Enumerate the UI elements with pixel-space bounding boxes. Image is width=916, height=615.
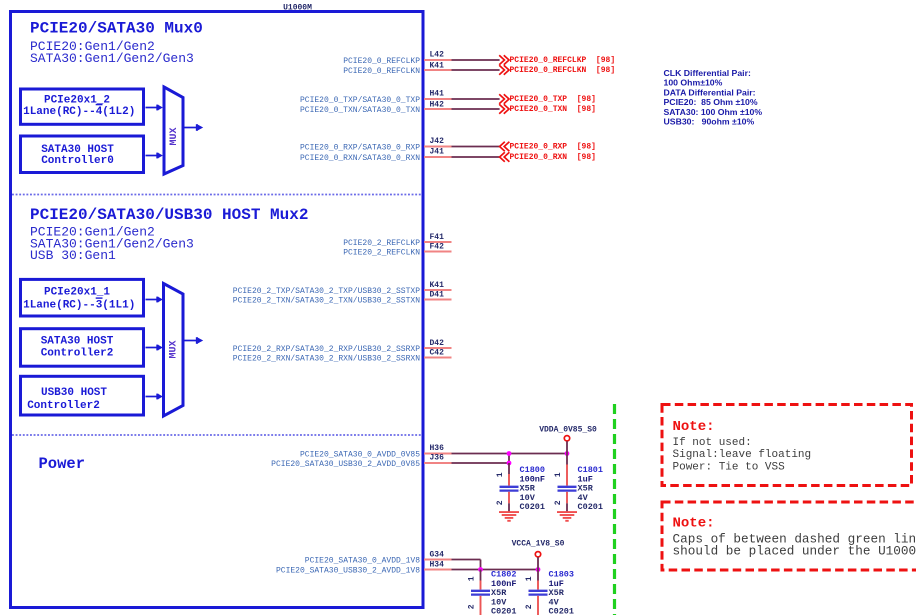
svg-text:PCIE20_2_RXP/SATA30_2_RXP/USB3: PCIE20_2_RXP/SATA30_2_RXP/USB30_2_SSRXP bbox=[233, 345, 420, 354]
svg-text:J41: J41 bbox=[430, 148, 445, 157]
svg-text:2: 2 bbox=[554, 500, 563, 505]
svg-text:PCIE20_SATA30_USB30_2_AVDD_0V8: PCIE20_SATA30_USB30_2_AVDD_0V85 bbox=[271, 460, 420, 469]
svg-text:PCIE20_2_REFCLKN: PCIE20_2_REFCLKN bbox=[343, 249, 420, 258]
pin K41 TXP2 bbox=[233, 281, 452, 296]
svg-text:PCIE20_0_REFCLKN [98]: PCIE20_0_REFCLKN [98] bbox=[510, 66, 616, 75]
svg-text:1: 1 bbox=[554, 472, 563, 477]
wire SATA30 ctrl0 to mux bbox=[146, 153, 163, 159]
svg-text:should be placed under the U10: should be placed under the U1000M bbox=[673, 544, 916, 559]
svg-text:PCIE20_0_REFCLKP: PCIE20_0_REFCLKP bbox=[343, 57, 420, 66]
svg-text:PCIE20_0_RXN/SATA30_0_RXN: PCIE20_0_RXN/SATA30_0_RXN bbox=[300, 154, 420, 163]
svg-text:100 Ohm±10%: 100 Ohm±10% bbox=[664, 78, 723, 88]
junction dot 2 bbox=[507, 461, 512, 466]
svg-text:C42: C42 bbox=[430, 349, 445, 358]
svg-text:If not used:: If not used: bbox=[673, 437, 752, 449]
svg-text:2: 2 bbox=[525, 604, 534, 609]
junction dot 5 bbox=[536, 567, 541, 572]
ground under C1800 bbox=[499, 512, 519, 521]
pin G34 AVDD_1V8 bbox=[305, 551, 452, 566]
net impedance annotation bbox=[664, 68, 763, 127]
svg-text:Controller0: Controller0 bbox=[41, 155, 114, 167]
svg-text:PCIE20_0_TXN/SATA30_0_TXN: PCIE20_0_TXN/SATA30_0_TXN bbox=[300, 106, 420, 115]
svg-text:1: 1 bbox=[468, 576, 477, 581]
wire net AVDD_0V85 horizontal J36 bbox=[452, 462, 510, 464]
section title Power bbox=[39, 455, 86, 473]
block PCIe20x1_2 bbox=[21, 89, 144, 124]
wire USB30 ctrl2 to mux2 bbox=[146, 394, 163, 400]
svg-text:USB30: 90ohm ±10%: USB30: 90ohm ±10% bbox=[664, 117, 755, 127]
wire net AVDD_1V8 H34 bbox=[452, 569, 539, 571]
power symbol VDDA_0V85_S0 bbox=[539, 426, 597, 454]
pin D41 TXN2 bbox=[233, 291, 452, 306]
pin F41 PCIE20_2_REFCLKP bbox=[343, 233, 451, 248]
capacitor C1801 bbox=[554, 454, 603, 513]
wire mux2 output bbox=[185, 337, 204, 344]
note box 1 bbox=[662, 405, 912, 486]
svg-text:U1000M: U1000M bbox=[283, 4, 312, 13]
section separator 2 bbox=[12, 434, 421, 436]
svg-text:VCCA_1V8_S0: VCCA_1V8_S0 bbox=[512, 540, 565, 549]
svg-text:Note:: Note: bbox=[673, 516, 715, 532]
svg-text:PCIE20_SATA30_0_AVDD_1V8: PCIE20_SATA30_0_AVDD_1V8 bbox=[305, 557, 420, 566]
svg-text:PCIE20_0_RXP/SATA30_0_RXP: PCIE20_0_RXP/SATA30_0_RXP bbox=[300, 144, 420, 153]
section separator 1 bbox=[12, 194, 421, 196]
svg-text:VDDA_0V85_S0: VDDA_0V85_S0 bbox=[539, 426, 597, 435]
svg-text:C0201: C0201 bbox=[520, 502, 546, 512]
svg-text:PCIE20_0_RXP [98]: PCIE20_0_RXP [98] bbox=[510, 143, 596, 152]
svg-text:USB30 HOST: USB30 HOST bbox=[41, 387, 107, 399]
svg-text:CLK Differential Pair:: CLK Differential Pair: bbox=[664, 68, 751, 78]
capacitor C1800 bbox=[496, 463, 545, 512]
svg-text:F41: F41 bbox=[430, 233, 445, 242]
capacitor C1803 bbox=[525, 570, 574, 615]
block SATA30 HOST Controller2 bbox=[21, 329, 144, 367]
svg-text:SATA30 HOST: SATA30 HOST bbox=[41, 336, 114, 348]
svg-text:L42: L42 bbox=[430, 51, 445, 60]
svg-text:G34: G34 bbox=[430, 551, 445, 560]
svg-text:PCIE20_0_TXP/SATA30_0_TXP: PCIE20_0_TXP/SATA30_0_TXP bbox=[300, 96, 420, 105]
svg-text:C0201: C0201 bbox=[491, 607, 517, 615]
svg-text:J42: J42 bbox=[430, 137, 445, 146]
wire vertical tie at x509 bbox=[508, 454, 510, 464]
block USB30 HOST Controller2 bbox=[21, 376, 144, 415]
wire PCIe20x1_1 to mux2 bbox=[146, 297, 163, 303]
junction dot 1 bbox=[507, 451, 512, 456]
section title Mux0 bbox=[30, 20, 203, 67]
green placement boundary line bbox=[613, 404, 616, 615]
svg-text:1Lane(RC)--4(1L2): 1Lane(RC)--4(1L2) bbox=[23, 106, 135, 118]
svg-text:D41: D41 bbox=[430, 291, 445, 300]
svg-text:PCIE20_2_REFCLKP: PCIE20_2_REFCLKP bbox=[343, 239, 420, 248]
svg-text:1: 1 bbox=[496, 472, 505, 477]
svg-text:PCIe20x1_1: PCIe20x1_1 bbox=[44, 287, 110, 299]
svg-text:PCIE20_2_RXN/SATA30_2_RXN/USB3: PCIE20_2_RXN/SATA30_2_RXN/USB30_2_SSRXN bbox=[233, 355, 420, 364]
svg-text:1: 1 bbox=[525, 576, 534, 581]
block SATA30 HOST Controller0 bbox=[21, 136, 144, 173]
pin K41 PCIE20_0_REFCLKN bbox=[343, 62, 615, 77]
junction dot 4 bbox=[478, 567, 483, 572]
svg-text:PCIE20_2_TXP/SATA30_2_TXP/USB3: PCIE20_2_TXP/SATA30_2_TXP/USB30_2_SSTXP bbox=[233, 287, 420, 296]
wire net AVDD_0V85 horizontal H36 bbox=[452, 453, 568, 455]
svg-text:J36: J36 bbox=[430, 454, 445, 463]
wire mux0 output bbox=[185, 124, 204, 131]
svg-text:Power: Tie to VSS: Power: Tie to VSS bbox=[673, 461, 786, 473]
ground under C1801 bbox=[557, 512, 577, 521]
pin C42 RXN2 bbox=[233, 349, 452, 364]
svg-text:H36: H36 bbox=[430, 444, 445, 453]
wire net AVDD_1V8 G34 with corner bbox=[452, 560, 481, 570]
pin F42 PCIE20_2_REFCLKN bbox=[343, 243, 451, 258]
pin J36 AVDD_0V85_2 bbox=[271, 454, 451, 470]
svg-text:H41: H41 bbox=[430, 90, 445, 99]
svg-text:PCIE20_SATA30_0_AVDD_0V85: PCIE20_SATA30_0_AVDD_0V85 bbox=[300, 451, 420, 460]
svg-text:2: 2 bbox=[468, 604, 477, 609]
pin H41 TXP bbox=[300, 90, 596, 106]
mux U-Mux2 symbol bbox=[164, 284, 184, 417]
svg-text:1Lane(RC)--3(1L1): 1Lane(RC)--3(1L1) bbox=[23, 300, 135, 312]
svg-text:USB 30:Gen1: USB 30:Gen1 bbox=[30, 248, 116, 263]
pin H34 AVDD_1V8_2 bbox=[276, 561, 452, 576]
svg-text:H34: H34 bbox=[430, 561, 445, 570]
svg-text:SATA30:Gen1/Gen2/Gen3: SATA30:Gen1/Gen2/Gen3 bbox=[30, 51, 194, 66]
svg-text:PCIE20_SATA30_USB30_2_AVDD_1V8: PCIE20_SATA30_USB30_2_AVDD_1V8 bbox=[276, 567, 420, 576]
junction dot 3 bbox=[565, 451, 570, 456]
svg-text:PCIE20_0_REFCLKN: PCIE20_0_REFCLKN bbox=[343, 67, 420, 76]
pin J42 RXP bbox=[300, 137, 596, 153]
svg-text:D42: D42 bbox=[430, 339, 445, 348]
svg-text:F42: F42 bbox=[430, 243, 445, 252]
svg-text:PCIE20_0_TXN [98]: PCIE20_0_TXN [98] bbox=[510, 105, 596, 114]
IC U1000M main outline bbox=[11, 4, 424, 608]
svg-text:PCIE20_2_TXN/SATA30_2_TXN/USB3: PCIE20_2_TXN/SATA30_2_TXN/USB30_2_SSTXN bbox=[233, 297, 420, 306]
svg-text:Power: Power bbox=[39, 455, 86, 473]
svg-text:PCIE20: 85 Ohm ±10%: PCIE20: 85 Ohm ±10% bbox=[664, 97, 758, 107]
wire SATA30 ctrl2 to mux2 bbox=[146, 345, 163, 351]
svg-text:PCIE20_0_REFCLKP [98]: PCIE20_0_REFCLKP [98] bbox=[510, 56, 616, 65]
svg-text:C0201: C0201 bbox=[578, 502, 604, 512]
svg-text:SATA30: 100 Ohm ±10%: SATA30: 100 Ohm ±10% bbox=[664, 107, 763, 117]
power symbol VCCA_1V8_S0 bbox=[512, 540, 565, 570]
svg-text:PCIE20_0_RXN [98]: PCIE20_0_RXN [98] bbox=[510, 153, 596, 162]
svg-text:PCIE20/SATA30 Mux0: PCIE20/SATA30 Mux0 bbox=[30, 20, 203, 38]
svg-text:DATA Differential Pair:: DATA Differential Pair: bbox=[664, 87, 756, 97]
pin H42 TXN bbox=[300, 101, 596, 116]
svg-text:Note:: Note: bbox=[673, 419, 715, 435]
svg-text:Controller2: Controller2 bbox=[41, 348, 114, 360]
pin J41 RXN bbox=[300, 148, 596, 164]
mux U-Mux0 symbol bbox=[164, 87, 183, 174]
svg-text:C0201: C0201 bbox=[549, 607, 575, 615]
svg-text:PCIE20/SATA30/USB30 HOST Mux2: PCIE20/SATA30/USB30 HOST Mux2 bbox=[30, 206, 308, 224]
pin D42 RXP2 bbox=[233, 339, 452, 354]
note box 2 bbox=[662, 502, 916, 570]
capacitor C1802 bbox=[468, 570, 517, 615]
svg-text:MUX: MUX bbox=[169, 127, 180, 145]
pin L42 PCIE20_0_REFCLKP bbox=[343, 51, 615, 67]
svg-text:MUX: MUX bbox=[169, 340, 180, 358]
block PCIe20x1_1 bbox=[21, 279, 144, 316]
wire PCIe20x1_2 to mux bbox=[146, 105, 163, 111]
svg-text:K41: K41 bbox=[430, 281, 445, 290]
svg-text:Controller2: Controller2 bbox=[27, 400, 100, 412]
pin H36 AVDD_0V85 bbox=[300, 444, 452, 460]
svg-text:Signal:leave floating: Signal:leave floating bbox=[673, 449, 812, 461]
svg-text:2: 2 bbox=[496, 500, 505, 505]
section title Mux2 bbox=[30, 206, 308, 263]
svg-text:PCIE20_0_TXP [98]: PCIE20_0_TXP [98] bbox=[510, 95, 596, 104]
